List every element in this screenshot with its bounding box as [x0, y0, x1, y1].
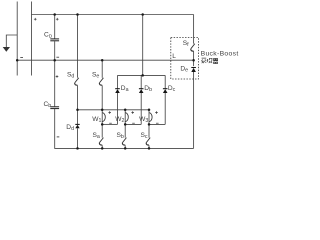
switch Se: [99, 78, 103, 85]
wire Sa to bottom bus: [101, 145, 103, 148]
minus mark W3: [156, 122, 159, 124]
wire bus2: [17, 59, 193, 61]
svg-text:Dc: Dc: [168, 85, 176, 93]
polarity marks: [20, 18, 158, 137]
plus mark W3: [155, 111, 158, 114]
svg-text:Buck-Boost: Buck-Boost: [201, 50, 239, 57]
svg-text:Db: Db: [144, 85, 152, 93]
wire Db corner to W2: [125, 123, 141, 125]
rail left 2: [31, 15, 33, 76]
svg-text:Sb: Sb: [117, 132, 124, 140]
minus mark W2: [132, 122, 135, 124]
wire W2 bottom to Sb: [124, 124, 126, 137]
wire diode header: [118, 74, 166, 76]
capacitor Co: [50, 39, 59, 41]
switch Sd: [75, 78, 79, 85]
plus mark Cb top: [56, 75, 59, 78]
svg-text:Se: Se: [92, 72, 99, 80]
capacitor Cb: [50, 107, 59, 109]
switch Sa: [99, 138, 103, 145]
wire Sd branch lower: [77, 85, 79, 124]
wire Sd branch upper: [77, 15, 79, 78]
minus mark W1: [109, 122, 112, 124]
svg-text:Sf: Sf: [183, 40, 189, 48]
svg-text:W3: W3: [139, 116, 148, 124]
switch Sf: [191, 44, 195, 51]
capacitor Co bottom lead: [54, 41, 56, 60]
wire top bus: [32, 14, 194, 16]
diode Da: [115, 75, 120, 124]
svg-text:W1: W1: [92, 116, 101, 124]
diode Dd: [75, 124, 79, 128]
wire Sf to node M: [193, 51, 195, 66]
label 变换器 (drawn strokes): [201, 58, 218, 63]
svg-text:Dd: Dd: [66, 124, 74, 132]
diode Dc: [163, 75, 168, 124]
wire Dd to bottom bus: [77, 128, 79, 148]
svg-text:Da: Da: [121, 85, 129, 93]
diode Db: [139, 75, 144, 124]
wire header drop: [142, 15, 144, 76]
minus mark rail bottom: [20, 57, 23, 59]
winding W3: [149, 110, 152, 125]
wire De to bottom bus: [193, 72, 195, 148]
svg-text:W2: W2: [115, 116, 124, 124]
svg-text:Sd: Sd: [67, 72, 74, 80]
switch Sc: [146, 138, 150, 145]
wire recovery branch top: [193, 15, 195, 44]
minus mark Co bottom: [56, 56, 59, 58]
ground wire: [6, 35, 17, 47]
wire Se to phase bus: [101, 85, 103, 109]
dashed box Buck-Boost: [171, 38, 199, 80]
svg-text:Cb: Cb: [44, 101, 52, 109]
capacitor Cb top lead: [54, 60, 56, 106]
wire W3 bottom to Sc: [148, 124, 150, 137]
capacitor Cb bottom lead + corner to bottom bus: [55, 109, 194, 148]
wire W1 bottom to Sa: [101, 124, 103, 137]
winding W2: [125, 110, 128, 125]
wire Dc corner to W3: [149, 123, 165, 125]
plus mark W1: [108, 111, 111, 114]
capacitor Co top lead: [54, 15, 56, 39]
wire phase bus: [78, 109, 150, 111]
wire Se branch upper: [101, 60, 103, 78]
plus mark rail: [34, 18, 37, 21]
rail left 1: [16, 2, 18, 76]
svg-text:Sc: Sc: [141, 132, 148, 140]
diode De: [191, 68, 196, 73]
winding W1: [102, 110, 105, 125]
minus mark Cb bottom: [57, 136, 60, 138]
ground: [3, 47, 10, 52]
plus mark W2: [131, 111, 134, 114]
svg-text:CD: CD: [44, 32, 53, 40]
wire Da corner to W1: [102, 123, 117, 125]
switch Sb: [122, 138, 126, 145]
plus mark Co top: [56, 18, 59, 21]
svg-text:Sa: Sa: [93, 132, 100, 140]
svg-text:L: L: [172, 53, 176, 60]
svg-text:De: De: [180, 66, 188, 74]
wire Sc to bottom bus: [148, 145, 150, 148]
wire Sb to bottom bus: [124, 145, 126, 148]
